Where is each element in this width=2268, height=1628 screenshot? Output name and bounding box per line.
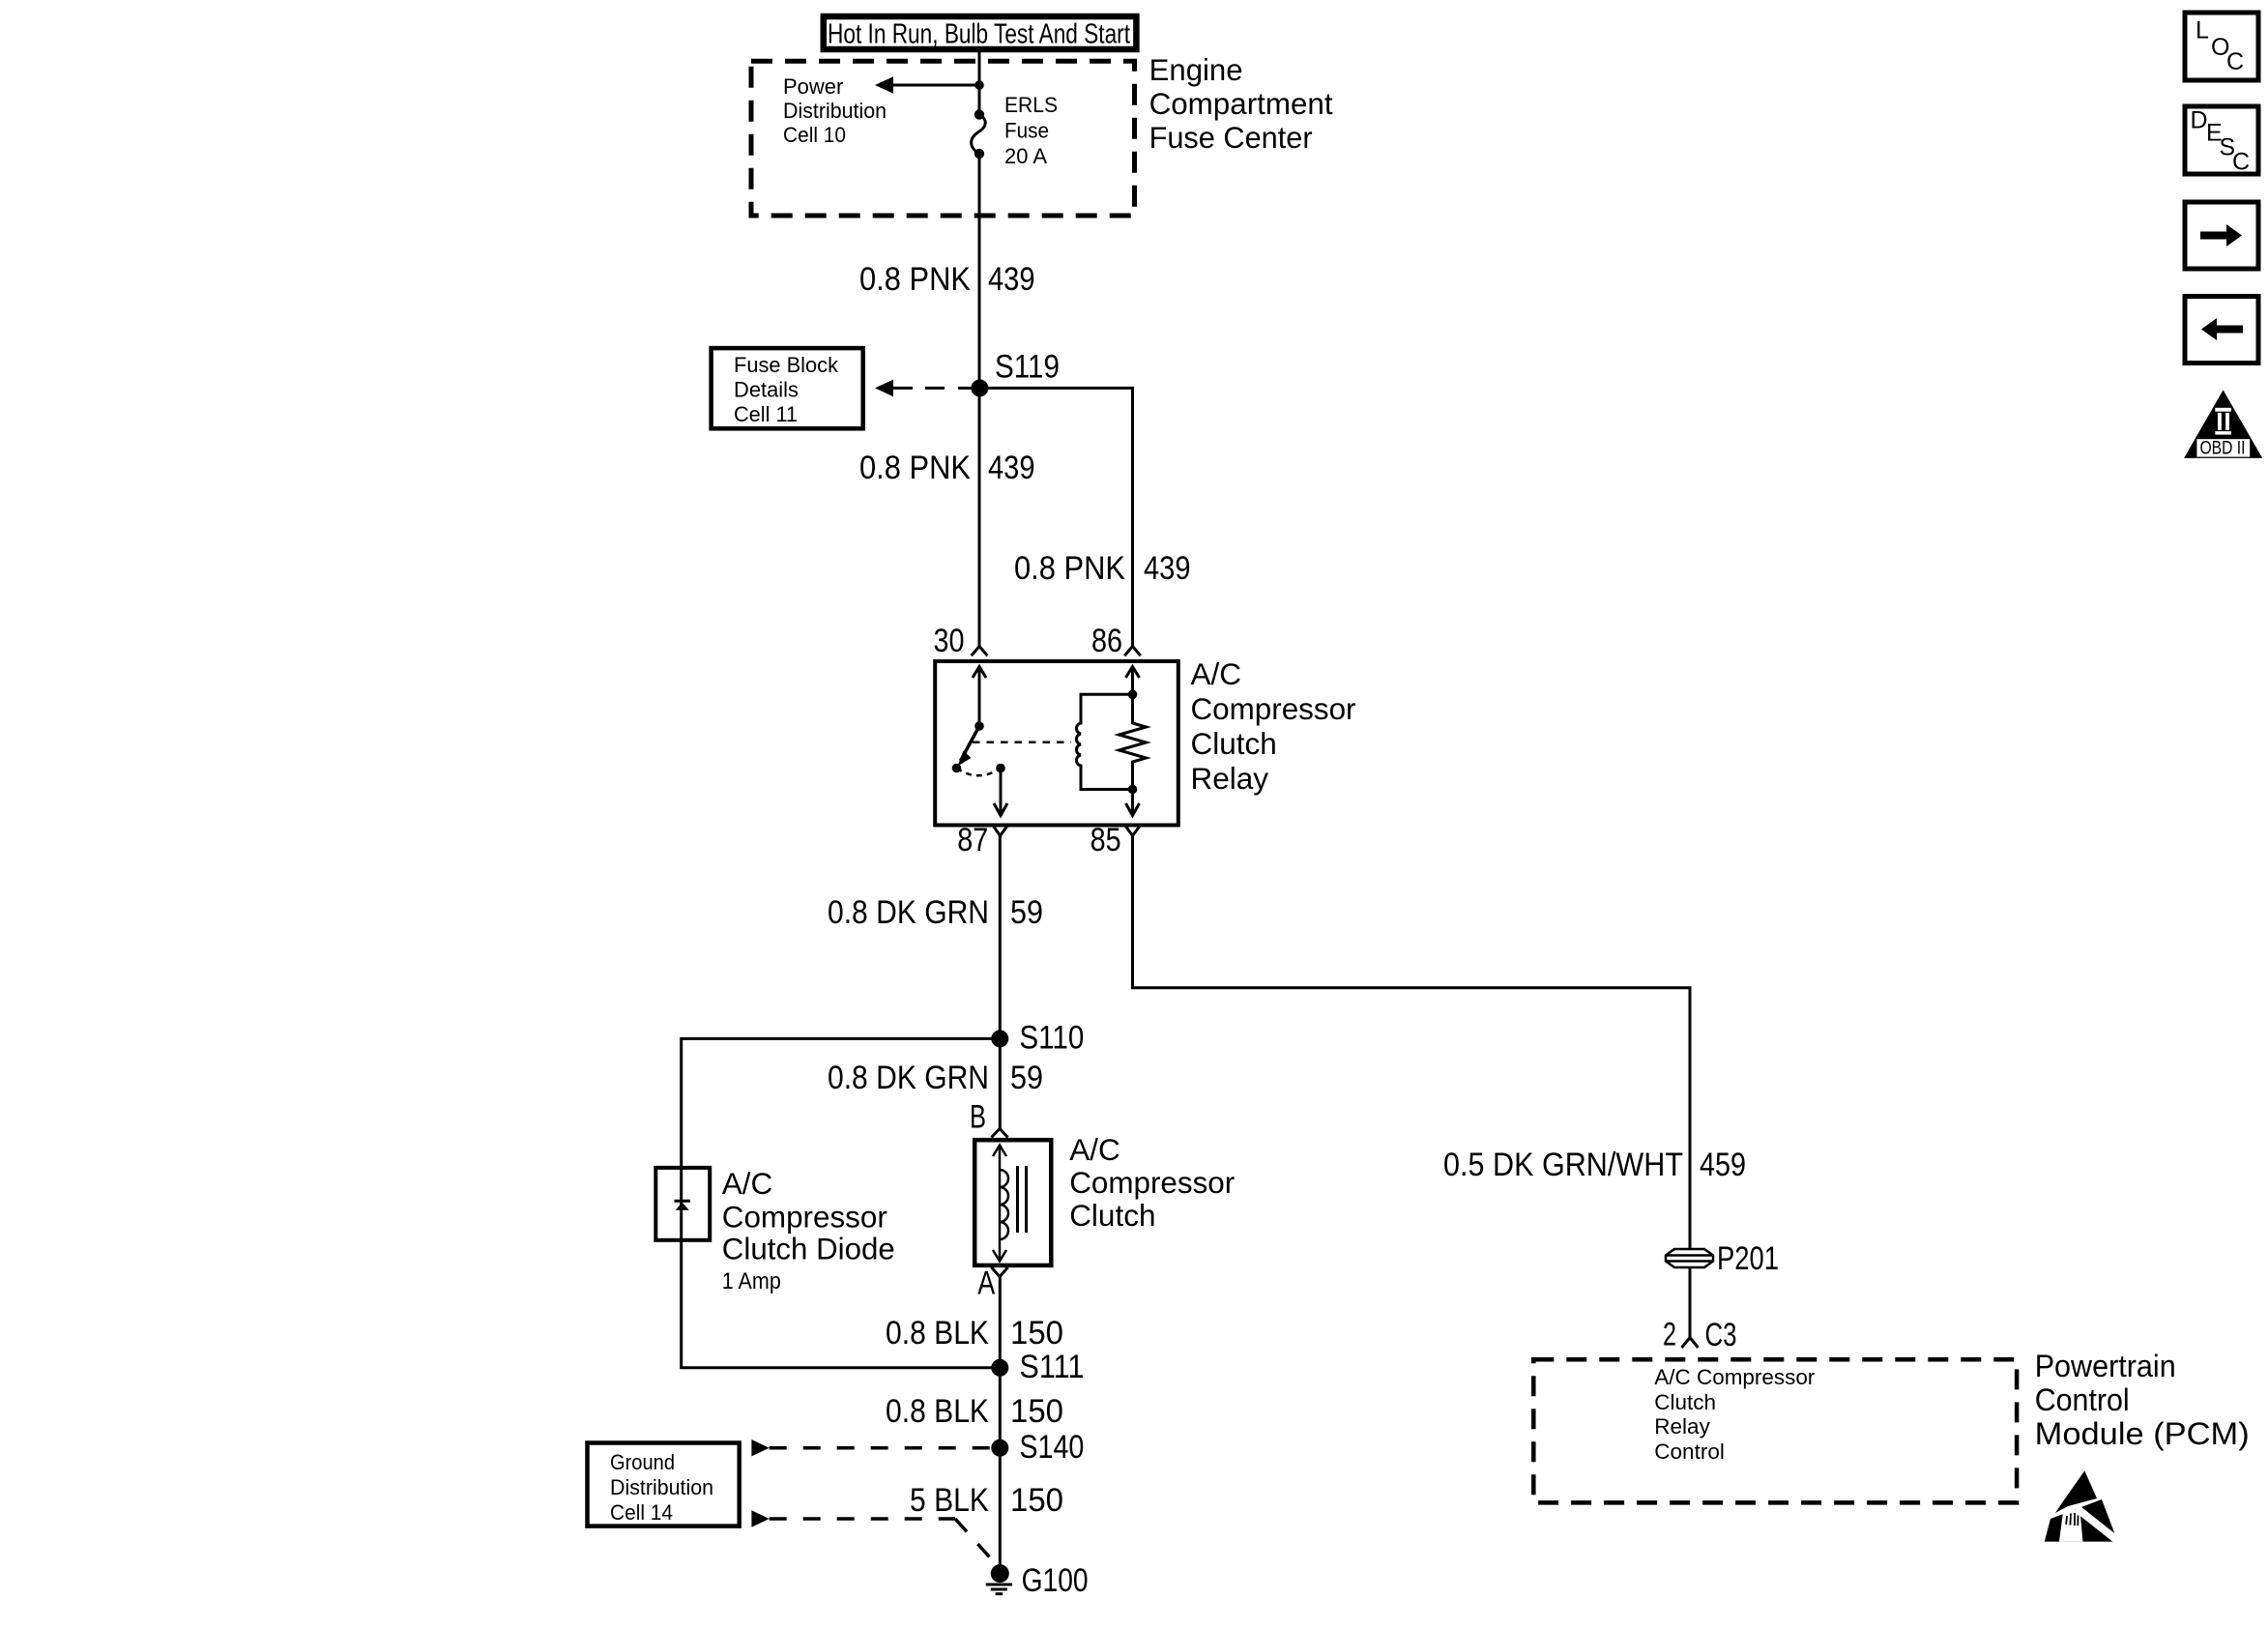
- svg-text:0.8 PNK: 0.8 PNK: [1014, 550, 1125, 587]
- svg-text:1 Amp: 1 Amp: [722, 1268, 781, 1294]
- relay actuation link (dashed): [973, 741, 1071, 744]
- wire label 0.8 PNK 439 (upper): [859, 261, 1035, 298]
- svg-text:G100: G100: [1022, 1562, 1089, 1599]
- svg-text:S110: S110: [1019, 1020, 1084, 1057]
- svg-text:D: D: [2191, 107, 2208, 134]
- arrow to Power Distribution: [875, 76, 979, 94]
- relay pin 85 inner arrow: [1126, 790, 1140, 816]
- wire 0.8 PNK 439 (S119 to relay pin 30): [978, 388, 981, 646]
- svg-text:Fuse: Fuse: [1004, 119, 1049, 143]
- wire S110 branch to clutch diode: [682, 1038, 1001, 1168]
- wire label 0.8 BLK 150 (upper): [886, 1315, 1063, 1352]
- svg-text:Compressor: Compressor: [1069, 1165, 1235, 1200]
- Fuse Block Details Cell 11 reference box: [712, 348, 863, 428]
- label A/C Compressor Clutch Diode 1 Amp: [722, 1166, 895, 1294]
- relay switch arm (pin 30 to common): [952, 667, 986, 773]
- svg-text:Ground: Ground: [610, 1450, 675, 1474]
- relay pin 86 inner arrow: [1126, 667, 1140, 695]
- svg-text:Control: Control: [1654, 1439, 1725, 1464]
- svg-text:S111: S111: [1019, 1349, 1084, 1385]
- clutch plates: [1018, 1166, 1027, 1233]
- svg-text:439: 439: [988, 261, 1035, 298]
- svg-text:A/C: A/C: [1191, 656, 1242, 691]
- dashed arrow Ground Distribution to G100 wire: [751, 1510, 998, 1566]
- relay pin 30 (terminal): [934, 623, 988, 659]
- label ERLS Fuse 20 A: [1004, 93, 1058, 168]
- junction dot at fuse feed: [974, 80, 984, 90]
- svg-text:A/C: A/C: [1069, 1132, 1120, 1167]
- svg-text:439: 439: [988, 450, 1035, 486]
- splice S140: [991, 1429, 1084, 1466]
- label Engine Compartment Fuse Center: [1149, 52, 1333, 155]
- svg-text:B: B: [970, 1098, 986, 1135]
- svg-text:Control: Control: [2035, 1382, 2130, 1417]
- svg-text:150: 150: [1010, 1482, 1063, 1519]
- svg-text:Cell 10: Cell 10: [783, 123, 846, 147]
- svg-text:A/C: A/C: [722, 1166, 773, 1201]
- svg-text:459: 459: [1700, 1147, 1746, 1183]
- wire 0.8 PNK 439 (S119 branch to relay pin 86): [979, 388, 1133, 646]
- A/C Compressor Clutch coil box: [974, 1140, 1051, 1265]
- wire 0.8 BLK 150 (S111 to S140): [999, 1368, 1002, 1448]
- svg-text:Details: Details: [734, 377, 799, 401]
- relay coil: [1076, 690, 1137, 795]
- ground G100: [986, 1562, 1089, 1599]
- svg-text:S119: S119: [995, 349, 1060, 386]
- A/C compressor clutch pin B: [970, 1098, 1008, 1137]
- wire 0.5 DK GRN/WHT 459 (pin 85 to PCM): [1133, 836, 1691, 1249]
- svg-text:85: 85: [1090, 822, 1121, 858]
- label A/C Compressor Clutch: [1069, 1132, 1235, 1233]
- relay pin 85 (terminal): [1090, 822, 1141, 858]
- wire 5 BLK 150 (S140 to G100): [999, 1448, 1002, 1574]
- svg-text:Power: Power: [783, 74, 843, 99]
- Power Distribution Cell 10 reference text: [783, 74, 887, 147]
- relay contact to pin 87: [994, 764, 1007, 816]
- dashed arrow Ground Distribution to S140: [751, 1439, 991, 1456]
- icon DESC box: [2185, 106, 2258, 176]
- svg-text:Compressor: Compressor: [1191, 691, 1356, 726]
- svg-text:Cell 11: Cell 11: [734, 402, 798, 426]
- svg-text:Relay: Relay: [1191, 761, 1269, 796]
- splice S110: [991, 1020, 1084, 1057]
- icon forward arrow box: [2185, 202, 2258, 269]
- svg-text:ERLS: ERLS: [1004, 93, 1058, 117]
- wire label 0.8 BLK 150 (lower): [886, 1393, 1063, 1430]
- relay coil suppression resistor: [1119, 694, 1147, 789]
- svg-text:Module (PCM): Module (PCM): [2035, 1416, 2250, 1451]
- svg-text:Clutch: Clutch: [1069, 1198, 1155, 1233]
- inline connector P201: [1666, 1240, 1779, 1277]
- svg-text:C: C: [2232, 149, 2250, 176]
- wire 0.8 PNK 439 (fuse to S119): [978, 154, 981, 388]
- svg-text:Clutch Diode: Clutch Diode: [722, 1232, 895, 1266]
- power feed label box "Hot In Run, Bulb Test And Start": [824, 16, 1137, 50]
- wire label 0.8 PNK 439 (branch): [1014, 550, 1191, 587]
- svg-text:Cell 14: Cell 14: [610, 1500, 673, 1525]
- svg-text:59: 59: [1010, 894, 1043, 931]
- icon LOC box: [2185, 13, 2258, 80]
- A/C Compressor Clutch Diode box: [655, 1168, 710, 1240]
- icon OBD II triangle: [2184, 390, 2262, 458]
- svg-text:0.8 DK GRN: 0.8 DK GRN: [828, 894, 989, 931]
- wire 0.8 DK GRN 59 (pin 87 to S110): [999, 836, 1002, 1039]
- svg-text:86: 86: [1091, 623, 1122, 659]
- svg-text:0.5 DK GRN/WHT: 0.5 DK GRN/WHT: [1443, 1147, 1683, 1183]
- relay pin 86 (terminal): [1091, 623, 1141, 659]
- svg-text:150: 150: [1010, 1393, 1063, 1430]
- wire from Hot In Run feed down into fuse: [978, 52, 981, 115]
- svg-text:Powertrain: Powertrain: [2035, 1349, 2176, 1383]
- svg-text:A: A: [977, 1265, 995, 1302]
- svg-text:S140: S140: [1019, 1429, 1084, 1466]
- svg-text:C: C: [2226, 48, 2244, 75]
- svg-text:P201: P201: [1717, 1240, 1779, 1277]
- svg-text:20 A: 20 A: [1004, 144, 1047, 168]
- relay pin 87 (terminal): [957, 822, 1008, 858]
- svg-text:150: 150: [1010, 1315, 1063, 1352]
- svg-text:0.8 PNK: 0.8 PNK: [859, 450, 971, 486]
- dashed arrow from S119 to Fuse Block Details: [875, 380, 973, 397]
- svg-text:5 BLK: 5 BLK: [910, 1482, 989, 1519]
- Ground Distribution Cell 14 reference box: [588, 1443, 740, 1526]
- svg-text:0.8 BLK: 0.8 BLK: [886, 1393, 989, 1430]
- svg-text:Distribution: Distribution: [610, 1475, 713, 1499]
- PCM: Powertrain Control Module dashed box: [1533, 1359, 2017, 1502]
- splice S111: [991, 1349, 1084, 1385]
- svg-text:0.8 PNK: 0.8 PNK: [859, 261, 971, 298]
- relay K1: A/C Compressor Clutch Relay box: [935, 661, 1178, 826]
- fuse ERLS 20 A (symbol): [972, 109, 986, 159]
- svg-text:C3: C3: [1705, 1317, 1737, 1353]
- PCM internal function label: [1654, 1365, 1815, 1464]
- wire diode to S111: [682, 1240, 1001, 1368]
- svg-text:OBD II: OBD II: [2200, 439, 2246, 459]
- wire label 0.8 DK GRN 59 (lower): [828, 1060, 1043, 1096]
- wire 0.8 BLK 150 (clutch A to S111): [999, 1277, 1002, 1368]
- wire label 0.8 DK GRN 59 (upper): [828, 894, 1043, 931]
- svg-text:Relay: Relay: [1654, 1414, 1710, 1439]
- relay movable contact travel (dashed arc): [957, 769, 1002, 776]
- wire label 0.5 DK GRN/WHT 459: [1443, 1147, 1746, 1183]
- Engine Compartment Fuse Center dashed box: [751, 61, 1135, 216]
- label Powertrain Control Module (PCM): [2035, 1349, 2250, 1451]
- svg-text:Compressor: Compressor: [722, 1200, 887, 1235]
- PCM pin 2 of connector C3: [1663, 1317, 1737, 1354]
- svg-text:87: 87: [957, 822, 988, 858]
- svg-text:Fuse Block: Fuse Block: [734, 353, 839, 377]
- svg-text:A/C Compressor: A/C Compressor: [1654, 1365, 1815, 1389]
- svg-text:Hot In Run, Bulb Test And Star: Hot In Run, Bulb Test And Start: [828, 19, 1130, 50]
- ESD sensitive device symbol (triangle with hand): [2045, 1470, 2123, 1545]
- icon back arrow box: [2185, 297, 2258, 363]
- svg-text:Fuse Center: Fuse Center: [1149, 120, 1313, 155]
- A/C compressor clutch pin A: [977, 1265, 1007, 1302]
- svg-text:Engine: Engine: [1149, 52, 1243, 87]
- wire 0.8 DK GRN 59 (S110 to clutch B): [999, 1038, 1002, 1128]
- svg-text:Distribution: Distribution: [783, 99, 887, 123]
- splice S119: [971, 349, 1060, 397]
- svg-text:0.8 DK GRN: 0.8 DK GRN: [828, 1060, 989, 1096]
- svg-text:0.8 BLK: 0.8 BLK: [886, 1315, 989, 1352]
- wire label 0.8 PNK 439 (middle): [859, 450, 1035, 486]
- svg-text:59: 59: [1010, 1060, 1043, 1096]
- wire P201 to PCM pin 2 C3: [1689, 1267, 1692, 1337]
- svg-text:L: L: [2195, 17, 2209, 44]
- label A/C Compressor Clutch Relay: [1191, 656, 1356, 796]
- svg-text:Clutch: Clutch: [1191, 726, 1277, 761]
- svg-text:439: 439: [1144, 550, 1191, 587]
- svg-text:Compartment: Compartment: [1149, 86, 1333, 121]
- clutch coil winding with arrows: [993, 1146, 1008, 1262]
- svg-text:2: 2: [1663, 1317, 1676, 1353]
- svg-text:Clutch: Clutch: [1654, 1390, 1716, 1414]
- wire label 5 BLK 150: [910, 1482, 1063, 1519]
- svg-text:30: 30: [934, 623, 965, 659]
